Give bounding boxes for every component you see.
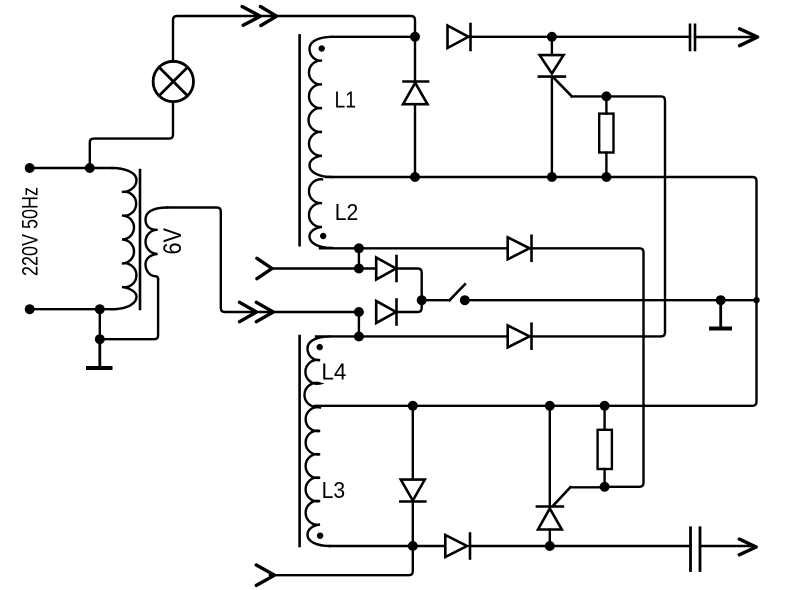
junction dot L4/L3 freewheel top bbox=[408, 401, 418, 411]
switch blade bbox=[450, 284, 465, 300]
ground right bbox=[711, 300, 730, 328]
arrow output top bbox=[740, 29, 758, 46]
junction dot resistor lower top bbox=[600, 401, 610, 411]
svg-text:L2: L2 bbox=[335, 199, 359, 225]
transformer T2 core upper bbox=[298, 35, 301, 245]
junction dot switch left bbox=[417, 295, 427, 305]
junction dot lamp branch bbox=[85, 163, 95, 173]
wire primary bottom to ground node bbox=[99, 309, 101, 339]
arrow output bottom bbox=[739, 539, 756, 555]
resistor gate upper bbox=[599, 96, 613, 177]
lamp bbox=[153, 61, 193, 101]
junction dot resistor bottom bbox=[601, 172, 611, 182]
winding L1 bbox=[309, 37, 332, 177]
junction dot gate resistor top bbox=[601, 91, 611, 101]
junction dot gate resistor bottom bbox=[600, 482, 610, 492]
diode lower steering bbox=[376, 300, 396, 325]
polarity dot L1 bbox=[319, 45, 325, 51]
wire node column lower bbox=[358, 312, 360, 337]
winding L3 bbox=[306, 407, 330, 546]
wire node column upper bbox=[358, 248, 360, 268]
node dot left terminal bottom bbox=[25, 304, 35, 314]
svg-text:220V 50Hz: 220V 50Hz bbox=[18, 187, 43, 276]
junction dot freewheel bottom bbox=[410, 172, 420, 182]
diode upper steering bbox=[376, 256, 396, 281]
junction dot L3 bottom bbox=[408, 541, 418, 551]
arrow double chevron on 6V feed wire bbox=[240, 302, 274, 321]
junction dot L2 bottom bbox=[354, 243, 364, 253]
junction dot L4 top bbox=[354, 332, 364, 342]
junction dot arrow wire lower bbox=[354, 307, 364, 317]
wire L1 top to node bbox=[332, 36, 415, 38]
wire L2 bottom bbox=[320, 247, 508, 249]
arrow double chevron on top rail bbox=[242, 7, 277, 26]
junction dot primary bottom bbox=[95, 304, 105, 314]
polarity dot L4 bbox=[317, 344, 323, 350]
node dot left terminal top bbox=[25, 163, 35, 173]
svg-text:L3: L3 bbox=[322, 477, 346, 503]
winding L2 bbox=[309, 179, 332, 248]
junction dot thyristor cathode bbox=[547, 172, 557, 182]
transformer T1 core bbox=[139, 170, 142, 309]
junction dot right rail tee bbox=[753, 297, 759, 303]
wire 220V bottom lead bbox=[30, 308, 115, 310]
wire switch to right rail bbox=[465, 299, 757, 301]
wire switch stub bbox=[422, 299, 450, 301]
wire L3 bottom bbox=[330, 545, 445, 547]
svg-text:L1: L1 bbox=[335, 86, 357, 112]
wire 6V top lead to arrow feed bbox=[167, 208, 359, 313]
polarity dot L3 bbox=[317, 533, 323, 539]
winding L4 bbox=[304, 336, 330, 406]
junction dot L1 top bbox=[410, 32, 420, 42]
wire gate upper to L4 diode bbox=[532, 96, 666, 336]
transformer T1 primary winding bbox=[112, 168, 137, 309]
thyristor lower bbox=[537, 406, 570, 546]
diode L2 to gate lower bbox=[508, 236, 532, 261]
junction dot thyristor anode bottom bbox=[545, 541, 555, 551]
junction dot thyristor anode top bbox=[547, 32, 557, 42]
wire bottom rail to capacitor bbox=[470, 545, 691, 547]
junction dot ground node right bbox=[716, 295, 726, 305]
wire top rail to thyristor node bbox=[471, 36, 691, 38]
wire 6V bottom lead bbox=[100, 279, 158, 339]
diode freewheel upper bbox=[403, 37, 428, 177]
wire capacitor to output arrow bottom bbox=[700, 545, 753, 547]
wire L4 top bbox=[316, 335, 508, 337]
switch contact dot bbox=[460, 295, 470, 305]
arrow input bottom chevron bbox=[256, 565, 274, 585]
transformer T2 core lower bbox=[298, 336, 301, 546]
wire junction rail L1/L2 to right and down to L4/L3 bbox=[315, 177, 757, 406]
capacitor output bottom bbox=[691, 528, 701, 571]
wire lamp bottom to transformer top node bbox=[90, 102, 173, 168]
junction dot ground node left bbox=[95, 334, 105, 344]
arrow input single chevron middle bbox=[257, 258, 272, 278]
svg-text:6V: 6V bbox=[159, 228, 187, 255]
wire upper diode to switch column bbox=[397, 269, 422, 313]
wire bottom input to L3 bottom bbox=[270, 546, 413, 575]
wire gate lower horizontal bbox=[570, 486, 604, 488]
wire capacitor to output arrow top bbox=[695, 36, 755, 38]
diode L4 to gate upper bbox=[508, 324, 532, 349]
junction dot arrow wire upper bbox=[354, 264, 364, 274]
svg-text:L4: L4 bbox=[321, 359, 346, 385]
ground left bbox=[88, 339, 111, 368]
wire L2 diode to lower gate bbox=[532, 248, 644, 486]
diode freewheel lower bbox=[400, 406, 425, 546]
thyristor upper bbox=[539, 37, 572, 177]
diode rectifier bottom bbox=[445, 534, 470, 559]
junction dot thyristor lower top bbox=[545, 401, 555, 411]
diode rectifier top bbox=[448, 24, 471, 50]
wire 220V top lead bbox=[30, 167, 112, 169]
resistor gate lower bbox=[598, 406, 612, 487]
capacitor output top bbox=[690, 25, 695, 50]
wire arrow input to node column bbox=[270, 267, 376, 269]
wire top rail from lamp to L1 top bbox=[173, 16, 415, 61]
transformer T1 secondary winding 6V bbox=[146, 208, 168, 280]
polarity dot L2 bbox=[320, 233, 326, 239]
